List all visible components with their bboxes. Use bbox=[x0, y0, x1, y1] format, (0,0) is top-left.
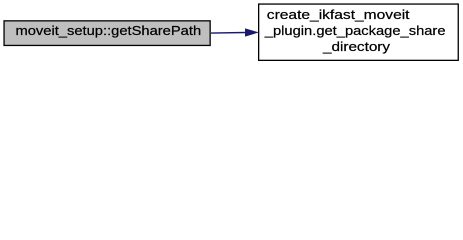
svg-text:create_ikfast_moveit: create_ikfast_moveit bbox=[267, 8, 410, 23]
svg-text:_directory: _directory bbox=[322, 40, 391, 55]
svg-text:moveit_setup::getSharePath: moveit_setup::getSharePath bbox=[15, 23, 201, 38]
svg-text:_plugin.get_package_share: _plugin.get_package_share bbox=[264, 23, 446, 38]
